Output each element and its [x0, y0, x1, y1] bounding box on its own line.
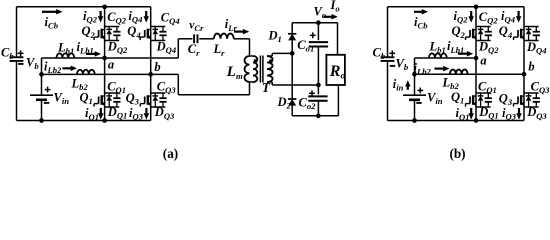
- svg-text:b: b: [528, 59, 534, 73]
- svg-text:a: a: [480, 53, 486, 67]
- svg-text:b: b: [154, 60, 160, 74]
- svg-text:T: T: [262, 80, 271, 95]
- svg-text:(a): (a): [163, 146, 178, 161]
- svg-text:(b): (b): [449, 146, 465, 161]
- svg-text:a: a: [108, 58, 114, 72]
